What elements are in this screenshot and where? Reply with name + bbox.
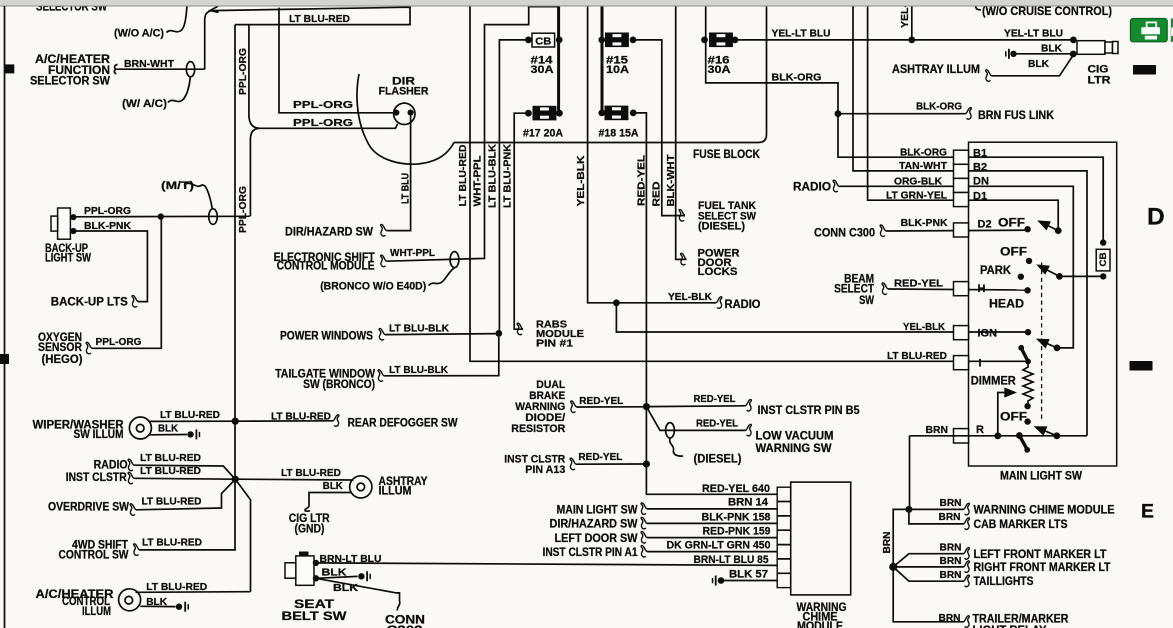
wire YEL-LT BLU [735,39,1073,41]
wire RED from fuse 15 to fuel tank select sw [633,40,685,216]
svg-text:PPL-ORG: PPL-ORG [293,117,353,129]
right tick 2 [1130,361,1153,371]
svg-text:PARK: PARK [980,265,1012,277]
svg-text:BACK-UP LTS: BACK-UP LTS [51,297,128,309]
lever R row [1036,427,1057,436]
wire BLK 57 [721,580,777,582]
squiggle cab marker [964,518,970,530]
ground (blk 57) [712,576,725,586]
svg-text:INST CLSTR PIN B5: INST CLSTR PIN B5 [758,405,861,417]
arrow mark on selector feed [210,6,218,12]
svg-text:BRN: BRN [926,424,949,436]
svg-text:(W/O CRUISE CONTROL): (W/O CRUISE CONTROL) [982,6,1112,18]
svg-text:OFF: OFF [998,218,1025,230]
wire TAN-WHT to B2 [853,6,1087,436]
svg-text:LOW VACUUM: LOW VACUUM [756,431,834,443]
dir flasher body circle [394,103,415,124]
wire BLK wiper to ground [149,434,187,436]
squiggle inst clstr b5 [746,400,752,412]
squiggle left front marker [964,548,970,560]
ground (a/c) [176,602,189,612]
wiper lamp symbol [129,417,151,439]
svg-text:LEFT FRONT MARKER LT: LEFT FRONT MARKER LT [974,549,1107,561]
svg-text:ASHTRAY ILLUM: ASHTRAY ILLUM [892,64,980,76]
wire BLK-PNK conn c300 to D2 [886,229,1028,232]
svg-text:ILLUM: ILLUM [379,486,412,498]
squiggle conn c300 [880,225,886,237]
wire PPL-ORG oxygen sensor [92,217,161,349]
squiggle power windows [379,329,385,341]
wire BLK-PNK to back-up lts [73,231,147,302]
svg-text:D: D [1147,204,1165,231]
contact dot OFF (r row) [1024,418,1030,424]
wire wavy (W/ A/C) connector [168,78,190,103]
svg-text:BRN: BRN [940,497,962,509]
squiggle ashtray illum (top) [986,70,992,82]
svg-text:LT BLU-RED: LT BLU-RED [160,409,220,421]
svg-text:BRN: BRN [940,555,962,567]
squiggle a13 [570,458,576,470]
pin box R [954,429,969,443]
wire RED-PNK 159 [647,537,777,539]
svg-text:BRN-WHT: BRN-WHT [124,58,175,70]
svg-text:SW ILLUM: SW ILLUM [74,429,124,441]
svg-text:SELECTOR SW: SELECTOR SW [30,75,110,87]
lever PARK row [1039,266,1060,277]
svg-text:LT BLU-RED: LT BLU-RED [140,452,201,464]
svg-text:CB: CB [535,35,551,47]
cig ltr plug symbol [1077,41,1118,55]
wire RED-YEL a13 [576,463,646,465]
curl conn [397,601,400,611]
pin box H [954,282,969,296]
hook to (W/O CRUISE CONTROL) [976,6,981,10]
pin boxes B1 B2 DN D1 [954,150,969,164]
svg-text:PIN A13: PIN A13 [525,464,565,476]
svg-text:#18 15A: #18 15A [599,128,639,140]
svg-text:BRN 14: BRN 14 [728,497,769,509]
connector ellipse on BRN-WHT [186,62,194,77]
junction dot cig ltr top [1070,37,1077,44]
squiggle back-up lts [132,296,138,308]
svg-text:LT BLU-RED: LT BLU-RED [281,467,341,479]
wire PPL-ORG upper flasher feed [279,8,393,113]
svg-text:MAIN LIGHT SW: MAIN LIGHT SW [557,504,638,516]
wire YEL- vertical [911,6,913,40]
pivot dot PARK row [1056,273,1063,280]
contact dot H [1024,287,1030,293]
svg-text:RED-YEL: RED-YEL [636,154,648,206]
wire LT BLU-RED inst clstr [134,477,235,480]
wire BLK-WHT to power door locks [676,6,687,260]
wire R to resistor arrow [998,393,1015,436]
svg-text:LT BLU-RED: LT BLU-RED [271,410,331,422]
svg-text:BRN: BRN [940,541,962,553]
svg-text:YEL-BLK: YEL-BLK [903,321,945,333]
wire tailgate window sw [384,333,499,375]
pivot dot IGN [1054,345,1061,352]
main light sw box [969,142,1117,466]
svg-text:YEL-LT BLU: YEL-LT BLU [1004,28,1063,40]
svg-text:RED-YEL: RED-YEL [894,278,944,290]
junction dot (oxygen tap) [158,213,164,219]
svg-text:BELT SW: BELT SW [282,611,347,623]
svg-text:WARNING SW: WARNING SW [756,443,832,455]
fuse block boundary [454,6,767,143]
svg-text:TAILLIGHTS: TAILLIGHTS [974,576,1034,588]
svg-text:LIGHT SW: LIGHT SW [45,252,91,264]
R flipper pivot dot [1016,432,1023,439]
svg-text:CB: CB [1098,252,1108,267]
svg-text:BLK-PNK: BLK-PNK [901,217,948,229]
svg-text:BLK-PNK 158: BLK-PNK 158 [702,511,771,523]
ground (ashtray blk) [1005,49,1017,59]
squiggle right front marker [964,561,970,573]
wire riser 4wd/ac to junction [236,480,251,592]
svg-text:BRN: BRN [881,532,893,554]
green print button [1130,19,1173,42]
wire LT BLU-RED vertical then I-wire to main light sw [470,6,1028,362]
svg-text:LEFT DOOR SW: LEFT DOOR SW [555,533,638,545]
wire LT BLU-RED wiper to junction [149,420,236,422]
squiggle oxygen sensor [86,342,92,354]
wire BLK (cig ltr gnd) [1016,53,1073,55]
squiggle tailgate [378,370,384,382]
wavy to (BRONCO W/O E40D) [429,268,455,286]
seat belt sw connector tab [285,563,296,578]
wire BRN to taillights [893,567,963,581]
svg-text:BLK: BLK [1028,58,1049,70]
ground (seat belt) [358,571,371,581]
wire DK GRN-LT GRN 450 [647,551,777,553]
svg-text:HEAD: HEAD [989,299,1024,311]
svg-text:WHT-PPL: WHT-PPL [390,247,436,259]
svg-text:LT BLU-RED: LT BLU-RED [140,465,201,477]
fuse 16 symbol [710,33,732,46]
pin box IGN [954,326,969,340]
svg-text:BLK-WHT: BLK-WHT [665,154,677,207]
wire BRN to cab marker lts [909,509,964,524]
svg-text:ORG-BLK: ORG-BLK [894,175,942,187]
wire LT BLU-RED overdrive [136,479,235,509]
ashtray lamp symbol [350,476,372,498]
svg-text:D1: D1 [973,190,987,202]
chime pin ladder [777,487,791,587]
wire BRN to right front marker [893,566,963,568]
svg-text:RADIO: RADIO [725,299,761,311]
squiggle rabs [517,323,523,335]
wire LT BLU-RED 4wd [140,549,237,551]
svg-text:PPL-ORG: PPL-ORG [237,48,249,95]
wire LT BLU-BLK power windows [385,334,499,335]
wire BRN to warning chime module [909,508,964,510]
svg-text:PPL-ORG: PPL-ORG [84,205,131,217]
wire BLK-ORG to BRN FUS LINK [838,113,966,115]
svg-text:H: H [978,283,986,295]
svg-text:(HEGO): (HEGO) [42,354,83,366]
wire RED-YEL beam select to H [888,289,1028,290]
dimmer flipper [1021,348,1028,361]
thick feed fuse 15/18 [601,6,604,113]
squiggle radio (middle) [716,297,722,309]
squiggle 4wd [134,544,140,556]
svg-text:(DIESEL): (DIESEL) [698,221,745,233]
svg-text:(M/T): (M/T) [161,180,194,192]
svg-text:R: R [976,424,984,436]
svg-text:RED-YEL: RED-YEL [578,451,623,463]
svg-text:RED-YEL 640: RED-YEL 640 [702,483,770,495]
svg-text:YEL-BLK: YEL-BLK [668,291,712,303]
left page border [4,6,6,628]
back-up light sw connector body [58,208,71,239]
right tick 1 [1133,65,1156,75]
svg-text:LOCKS: LOCKS [698,266,738,278]
svg-text:DIR/HAZARD SW: DIR/HAZARD SW [285,226,373,238]
svg-text:BLK 57: BLK 57 [729,569,768,581]
svg-text:LT BLU-BLK: LT BLU-BLK [389,322,449,334]
svg-text:YEL-: YEL- [899,3,911,28]
pivot dot R row [1053,432,1060,439]
squiggle power door locks [681,253,687,265]
squiggle left door sw [641,532,647,544]
svg-text:OFF: OFF [1000,412,1027,424]
svg-text:WARNING CHIME MODULE: WARNING CHIME MODULE [974,505,1115,517]
wire LT BLU-RED a/c illum [136,591,251,594]
wire BLK ashtray illum [992,55,1074,76]
contact dot PARK [1018,274,1024,280]
svg-text:PPL-ORG: PPL-ORG [293,99,353,111]
svg-text:LT BLU: LT BLU [400,173,412,204]
svg-text:LT BLU-RED: LT BLU-RED [289,13,350,25]
wire wavy (W/O A/C) connector [167,6,188,32]
resistor bottom dot [1024,403,1030,409]
svg-text:RED-PNK 159: RED-PNK 159 [703,526,771,538]
squiggle main light sw (chime) [641,503,647,515]
squiggle inst clstr [128,472,134,484]
svg-text:MAIN LIGHT SW: MAIN LIGHT SW [1000,471,1082,483]
junction dot R wire [994,432,1001,439]
svg-text:DIMMER: DIMMER [971,375,1017,387]
svg-text:INST CLSTR PIN A1: INST CLSTR PIN A1 [543,547,639,559]
squiggle dual brake [571,401,577,413]
svg-text:BLK: BLK [323,480,343,492]
wire RED-YEL from fuse 18 down to chime [633,113,777,494]
svg-text:E: E [1141,500,1154,522]
svg-text:RED-YEL: RED-YEL [579,395,624,407]
svg-text:SENSOR: SENSOR [38,342,83,354]
svg-text:BLK: BLK [1041,42,1062,54]
svg-text:OVERDRIVE SW: OVERDRIVE SW [48,501,129,513]
wire BRN-LT BLU 85 long [316,563,778,566]
wire YEL-BLK vertical to radio [588,6,716,303]
junction dot wiper [232,418,239,425]
fuse 15 symbol [606,33,628,46]
svg-text:LT GRN-YEL: LT GRN-YEL [886,190,948,202]
svg-text:WHT-PPL: WHT-PPL [472,155,484,207]
curl to (DIESEL) [670,438,683,456]
svg-text:MODULE: MODULE [797,621,843,628]
wire BLK ashtray to cig ltr gnd [309,493,351,505]
wire YEL-BLK branch to IGN [616,303,1028,332]
svg-text:CONTROL MODULE: CONTROL MODULE [277,261,375,273]
svg-text:(BRONCO W/O E40D): (BRONCO W/O E40D) [320,281,426,293]
wire RED-YEL to inst clstr pin B5 [646,405,745,408]
svg-text:LT BLU-RED: LT BLU-RED [146,581,207,593]
back-up sw terminal dots [70,214,76,220]
squiggle fuel tank [679,210,685,222]
svg-text:SW: SW [859,295,874,307]
left tick 3 [0,354,9,364]
junction dot brn lower [889,563,897,571]
svg-text:10A: 10A [606,64,629,76]
brace at BRN-WHT start [114,65,117,74]
squiggle electronic shift [381,255,387,267]
junction dot yel-blk [613,299,620,306]
wire BRN-WHT [117,68,205,70]
wire LT BLU-RED to rear defogger [235,420,333,422]
svg-text:30A: 30A [708,64,731,76]
wire BRN drop to chime junction [909,436,911,510]
wire BLK seat belt to ground [316,576,358,578]
squiggle warning chime [964,503,970,515]
wire long left vertical LT BLU-RED [234,25,236,551]
squiggle taillights [964,575,970,587]
back-up light sw connector tab [51,216,58,231]
wire pivot to CB2 [1059,275,1103,277]
svg-text:BRN: BRN [940,569,962,581]
wire LT GRN-YEL to D1 [868,6,1059,231]
junction dot lower left [232,476,239,483]
contact dot OFF(park) [1026,258,1032,264]
svg-text:DN: DN [973,176,989,188]
pivot dot D2 [1055,227,1062,234]
svg-text:LT BLU-RED: LT BLU-RED [887,350,947,362]
wire LT BLU-RED radio [134,465,235,479]
wire PPL-ORG back-up light sw [73,215,249,218]
wire BRN 14 [647,508,777,510]
connector ellipse on back-up wire [209,209,218,225]
svg-text:DK GRN-LT GRN 450: DK GRN-LT GRN 450 [667,540,771,552]
wire LT BLU-PNK from fuse 17 to RABS [514,113,528,329]
junction dot yel [908,37,915,44]
wire PPL-ORG vertical with split to flasher [249,25,398,129]
thick feed to CB and fuse 17 [557,6,560,114]
contact dot IGN [1025,329,1031,335]
svg-text:LT BLU-RED: LT BLU-RED [142,495,202,507]
svg-text:BRN FUS LINK: BRN FUS LINK [978,110,1055,122]
svg-text:RADIO: RADIO [793,182,831,194]
squiggle overdrive [130,504,136,516]
junction dot red-yel upper [643,403,650,410]
seat belt sw connector cap [299,552,309,557]
wire LT BLU-RED to ashtray illum [235,478,353,481]
CB2 terminal dots [1100,239,1106,245]
svg-text:INST CLSTR: INST CLSTR [66,472,128,484]
svg-text:LT BLU-RED: LT BLU-RED [457,144,469,206]
svg-text:PPL-ORG: PPL-ORG [96,336,142,348]
fuse 18 terminal dots [598,110,605,117]
svg-text:BLK: BLK [158,423,178,435]
svg-text:REAR DEFOGGER SW: REAR DEFOGGER SW [348,418,458,430]
svg-text:PPL-ORG: PPL-ORG [237,186,249,233]
squiggle rear defogger [333,415,339,427]
circuit breaker CB #14 box [532,33,555,47]
svg-text:BLK-ORG: BLK-ORG [772,72,822,84]
svg-text:LT BLU-BLK: LT BLU-BLK [389,364,448,376]
wire BLK a/c to ground [140,605,175,607]
svg-text:FLASHER: FLASHER [379,86,429,98]
resistor zigzag [1023,363,1033,404]
svg-text:BLK-ORG: BLK-ORG [900,147,947,159]
svg-text:I: I [979,358,982,370]
wire ORG-BLK radio to DN [839,186,1073,348]
connector ellipse low vacuum [666,423,675,438]
svg-text:RADIO: RADIO [94,460,128,472]
wire selector feed (top horizontal) [213,7,410,24]
svg-text:TAN-WHT: TAN-WHT [899,160,948,172]
wire BRN main drop [893,509,963,621]
svg-text:D2: D2 [978,219,992,231]
wire BLK seat belt to conn [316,578,400,601]
svg-text:CAB MARKER LTS: CAB MARKER LTS [974,519,1068,531]
CB terminal dots [525,37,532,44]
connector ellipse on WHT-PPL wire [450,252,459,268]
ground (wiper) [187,429,200,439]
svg-text:YEL-BLK: YEL-BLK [575,155,587,206]
svg-text:CONTROL SW: CONTROL SW [59,549,129,561]
pin box D2 [954,223,969,237]
R flipper [1019,436,1027,450]
dir flasher outer arc [357,74,454,164]
top gray strip [0,0,1173,6]
svg-text:BRN: BRN [939,612,961,624]
svg-text:BRN-LT BLU 85: BRN-LT BLU 85 [694,554,769,566]
svg-text:B1: B1 [973,147,987,159]
squiggle beam select [882,283,888,295]
squiggle dir/hazard [381,225,387,237]
squiggle radio (bottom) [128,459,134,471]
squiggle brn fus link [966,108,972,120]
fuse 17 terminal dots [525,110,532,117]
svg-text:ILLUM: ILLUM [82,606,111,618]
svg-text:IGN: IGN [978,328,998,340]
junction dot power windows [495,330,502,337]
svg-text:RED-YEL: RED-YEL [696,418,739,430]
svg-text:FUSE BLOCK: FUSE BLOCK [693,149,761,161]
wire BRN-WHT riser to top wire [205,11,213,69]
printer icon [1147,22,1157,28]
svg-text:YEL-LT BLU: YEL-LT BLU [772,28,831,40]
wire BRN / R row [910,435,1088,437]
a/c heater lamp symbol [119,589,141,611]
wire PPL-ORG split lower branch [250,128,260,216]
squiggle dir/hazard (chime) [641,517,647,529]
svg-text:LTR: LTR [1088,75,1111,87]
svg-text:B2: B2 [973,161,987,173]
fuse 17 symbol [533,107,555,120]
svg-text:(W/ A/C): (W/ A/C) [122,98,167,110]
seat belt terminal dots [313,560,319,566]
wire LT BLU from flasher to dir/hazard sw [387,114,411,231]
junction dot cig ltr lower [1070,51,1077,58]
svg-text:PIN #1: PIN #1 [536,338,573,350]
svg-text:CONN C300: CONN C300 [814,227,875,239]
curl cig ltr gnd [305,505,310,512]
wire BLK-PNK 158 [647,522,777,524]
junction dot blk-org [835,110,842,117]
svg-text:RED: RED [651,181,663,206]
svg-text:LT BLU-PNK: LT BLU-PNK [502,144,514,208]
